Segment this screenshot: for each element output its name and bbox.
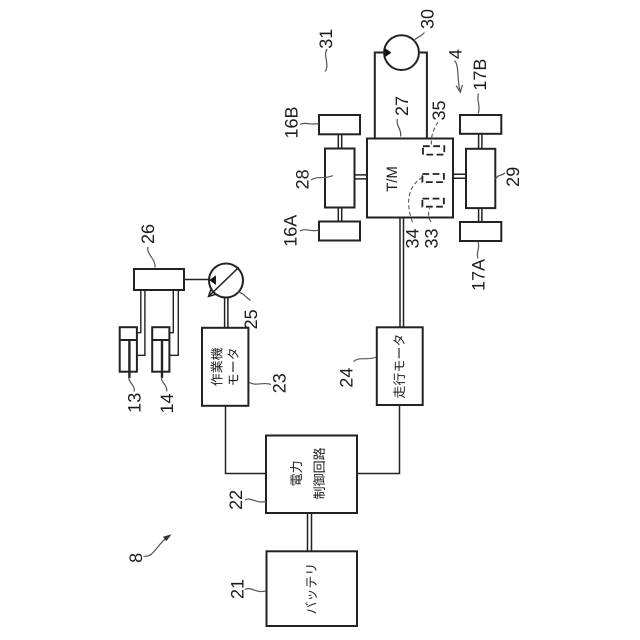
cylinder 14 body — [152, 327, 169, 372]
pump circle 25 — [209, 264, 243, 298]
svg-text:17A: 17A — [469, 259, 489, 291]
wheel 16B — [319, 115, 360, 134]
arrow 8 — [144, 538, 167, 557]
shaft 28 to T/M — [355, 175, 368, 179]
svg-text:26: 26 — [138, 224, 158, 244]
svg-text:バッテリ: バッテリ — [304, 563, 319, 615]
wheel 16A — [319, 222, 360, 241]
clutch 34 — [422, 174, 444, 182]
svg-text:走行モータ: 走行モータ — [392, 334, 407, 399]
dashed leader 33 — [429, 208, 431, 222]
axle box 29 — [466, 149, 495, 208]
svg-text:34: 34 — [403, 228, 423, 248]
leader 27 — [397, 119, 401, 137]
wire travel motor to power circuit — [357, 405, 400, 474]
leader 14 — [162, 377, 167, 392]
leader 21 — [245, 589, 266, 592]
cylinder 13 body — [120, 327, 137, 372]
svg-text:14: 14 — [157, 393, 177, 413]
wire work motor to power circuit — [226, 406, 267, 474]
svg-text:22: 22 — [226, 490, 246, 510]
clutch 33 — [422, 199, 444, 207]
arrow 4 — [455, 61, 461, 93]
leader 29 — [496, 173, 506, 179]
work machine motor box 23 — [202, 328, 248, 406]
leader 24 — [354, 357, 377, 362]
axle shaft 28 to 16A — [338, 208, 341, 222]
shaft T/M to 29 — [453, 174, 466, 178]
wheel 17B — [460, 115, 501, 134]
svg-text:作業機: 作業機 — [210, 347, 225, 386]
leader 16A — [300, 230, 319, 231]
valve box 26 — [134, 269, 184, 290]
leader 17A — [477, 242, 478, 259]
leader 25 — [238, 292, 251, 301]
hose 26 to cyl13 rod — [137, 290, 145, 355]
svg-text:27: 27 — [392, 96, 412, 116]
svg-text:16B: 16B — [282, 106, 302, 138]
svg-text:13: 13 — [125, 393, 145, 413]
leader 28 — [311, 176, 333, 181]
wheel 17A — [460, 222, 501, 241]
triangle inside circle 30 — [385, 48, 392, 57]
svg-text:16A: 16A — [281, 215, 301, 247]
svg-text:電力: 電力 — [289, 460, 304, 486]
svg-text:4: 4 — [446, 49, 466, 59]
cylinder 13 rod — [128, 340, 130, 378]
svg-text:8: 8 — [126, 553, 146, 563]
engine circle 30 — [384, 35, 419, 70]
link battery to power circuit — [308, 513, 312, 551]
leader 23 — [249, 383, 271, 385]
shaft pump to work motor — [225, 298, 228, 328]
axle shaft 17B to 29 — [479, 134, 482, 149]
svg-text:モータ: モータ — [226, 347, 241, 386]
leader 22 — [245, 499, 266, 502]
hose 26 to cyl14 cap — [169, 290, 173, 333]
svg-text:35: 35 — [429, 100, 449, 120]
svg-text:T/M: T/M — [384, 166, 401, 192]
svg-text:33: 33 — [422, 228, 442, 248]
leader 26 — [148, 247, 155, 268]
svg-text:21: 21 — [227, 579, 247, 599]
leader squiggle 31 — [325, 49, 327, 72]
svg-text:制御回路: 制御回路 — [312, 447, 327, 499]
travel motor box 24 — [377, 327, 423, 405]
power control circuit box 22 — [266, 436, 357, 514]
hose 26 to cyl14 rod — [169, 290, 178, 355]
line valve 26 to pump 25 — [184, 279, 209, 281]
hose 26 to cyl13 cap — [137, 290, 141, 333]
axle shaft 29 to 17A — [479, 208, 482, 222]
T/M box — [367, 139, 453, 218]
axle shaft 16B to 28 — [338, 134, 341, 148]
cylinder 14 rod — [161, 340, 163, 378]
svg-text:23: 23 — [269, 373, 289, 393]
svg-text:30: 30 — [418, 9, 438, 29]
dashed leader 34 — [409, 178, 422, 222]
pump triangle — [209, 275, 216, 285]
cylinder 13 piston — [120, 339, 137, 341]
svg-text:17B: 17B — [470, 59, 490, 91]
svg-text:24: 24 — [336, 368, 356, 388]
leader 30 — [414, 33, 425, 41]
clutch 35 — [423, 146, 444, 154]
axle box 28 — [325, 149, 355, 208]
rectangle 27 (PTO housing) — [375, 53, 427, 139]
battery box 21 — [267, 551, 358, 626]
leader 16B — [300, 123, 319, 124]
leader 17B — [478, 94, 479, 114]
svg-text:31: 31 — [316, 29, 336, 49]
cylinder 14 piston — [152, 339, 169, 341]
leader 13 — [129, 377, 134, 392]
dashed leader 35 — [431, 122, 438, 146]
svg-text:29: 29 — [503, 167, 523, 187]
svg-text:25: 25 — [241, 309, 261, 329]
drive shaft T/M to travel motor — [400, 218, 404, 328]
pump variable arrow diagonal — [209, 267, 239, 296]
svg-text:28: 28 — [293, 169, 313, 189]
